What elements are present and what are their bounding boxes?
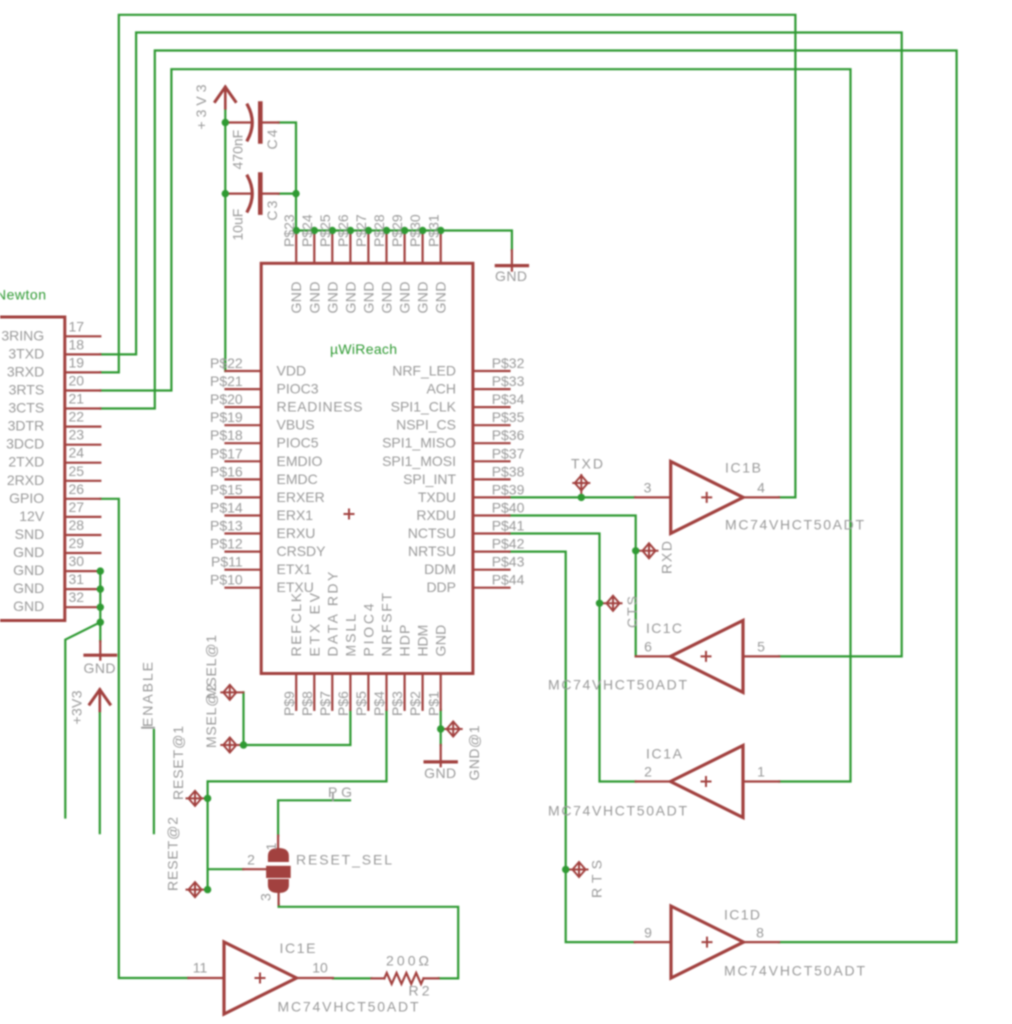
svg-text:P$4: P$4 [371, 691, 387, 716]
svg-text:3DCD: 3DCD [6, 436, 44, 452]
svg-text:29: 29 [69, 535, 85, 551]
svg-text:10uF: 10uF [229, 209, 245, 241]
svg-text:P$5: P$5 [353, 691, 369, 716]
svg-text:HDM: HDM [415, 625, 431, 657]
svg-text:P$12: P$12 [210, 536, 243, 552]
svg-text:P$31: P$31 [425, 214, 441, 247]
svg-text:VBUS: VBUS [277, 417, 315, 433]
svg-text:C4: C4 [264, 129, 280, 149]
svg-text:P$3: P$3 [389, 691, 405, 716]
svg-text:RTS: RTS [589, 860, 605, 898]
svg-text:P$18: P$18 [210, 427, 243, 443]
svg-text:GND: GND [433, 625, 449, 657]
svg-text:RESET@2: RESET@2 [165, 817, 181, 891]
svg-text:P$40: P$40 [492, 499, 525, 515]
svg-text:2: 2 [247, 852, 255, 868]
svg-text:2: 2 [644, 764, 652, 780]
svg-text:200Ω: 200Ω [386, 953, 429, 969]
svg-text:P$39: P$39 [492, 481, 525, 497]
svg-text:2TXD: 2TXD [8, 454, 44, 470]
svg-text:5: 5 [757, 639, 765, 655]
svg-text:P$13: P$13 [210, 518, 243, 534]
svg-text:IC1B: IC1B [725, 460, 761, 476]
svg-text:PIOC5: PIOC5 [277, 435, 319, 451]
svg-text:P$8: P$8 [299, 691, 315, 716]
svg-text:27: 27 [69, 499, 85, 515]
svg-text:P$24: P$24 [299, 214, 315, 247]
svg-text:GND: GND [288, 282, 304, 314]
svg-text:NRF_LED: NRF_LED [392, 363, 456, 379]
svg-text:DDM: DDM [424, 561, 456, 577]
svg-text:RESET_SEL: RESET_SEL [296, 852, 392, 868]
svg-text:6: 6 [644, 639, 652, 655]
svg-text:MSLL: MSLL [342, 614, 358, 657]
svg-text:P$2: P$2 [407, 691, 423, 716]
svg-text:GND: GND [13, 598, 44, 614]
svg-text:DDP: DDP [426, 579, 456, 595]
svg-text:P$41: P$41 [492, 518, 525, 534]
svg-text:32: 32 [69, 589, 85, 605]
svg-text:3RING: 3RING [1, 327, 44, 343]
svg-text:P$30: P$30 [407, 214, 423, 247]
svg-text:SPI1_MISO: SPI1_MISO [382, 435, 456, 451]
svg-text:GND: GND [495, 268, 527, 284]
svg-text:3DTR: 3DTR [8, 418, 45, 434]
svg-text:3RXD: 3RXD [7, 363, 44, 379]
svg-text:MC74VHCT50ADT: MC74VHCT50ADT [548, 677, 687, 693]
svg-text:IC1D: IC1D [724, 907, 760, 923]
svg-text:20: 20 [69, 372, 85, 388]
svg-text:CRSDY: CRSDY [277, 543, 327, 559]
svg-text:21: 21 [69, 391, 85, 407]
svg-text:ERX1: ERX1 [277, 507, 314, 523]
svg-text:RESET@1: RESET@1 [170, 726, 186, 800]
svg-text:PIOC3: PIOC3 [277, 381, 319, 397]
svg-text:GPIO: GPIO [9, 490, 44, 506]
svg-text:GND: GND [397, 282, 413, 314]
svg-text:GND: GND [324, 282, 340, 314]
svg-text:P$28: P$28 [371, 214, 387, 247]
svg-text:P$26: P$26 [335, 214, 351, 247]
svg-text:28: 28 [69, 517, 85, 533]
svg-text:NRFSFT: NRFSFT [379, 592, 395, 656]
svg-text:3RTS: 3RTS [9, 381, 45, 397]
svg-text:2RXD: 2RXD [7, 472, 44, 488]
svg-text:26: 26 [69, 481, 85, 497]
svg-text:HDP: HDP [397, 625, 413, 657]
svg-text:ACH: ACH [426, 381, 456, 397]
svg-text:P$38: P$38 [492, 463, 525, 479]
svg-text:22: 22 [69, 409, 85, 425]
svg-text:NCTSU: NCTSU [408, 525, 456, 541]
svg-text:9: 9 [644, 925, 652, 941]
svg-text:31: 31 [69, 571, 85, 587]
svg-text:GND: GND [360, 282, 376, 314]
svg-text:EMDIO: EMDIO [277, 453, 323, 469]
svg-text:P$36: P$36 [492, 427, 525, 443]
svg-text:MC74VHCT50ADT: MC74VHCT50ADT [278, 999, 419, 1015]
svg-text:PIOC4: PIOC4 [360, 603, 376, 656]
svg-text:SPI_INT: SPI_INT [403, 471, 456, 487]
svg-text:P$23: P$23 [281, 214, 297, 247]
svg-text:P$32: P$32 [492, 355, 525, 371]
svg-text:MC74VHCT50ADT: MC74VHCT50ADT [724, 963, 865, 979]
svg-text:470nF: 470nF [229, 130, 245, 170]
svg-text:SPI1_MOSI: SPI1_MOSI [382, 453, 456, 469]
svg-text:SPI1_CLK: SPI1_CLK [391, 399, 457, 415]
svg-text:GND: GND [379, 282, 395, 314]
svg-text:READINESS: READINESS [277, 399, 363, 415]
svg-text:SND: SND [15, 526, 45, 542]
svg-text:REFCLK: REFCLK [288, 592, 304, 656]
svg-text:GND: GND [415, 282, 431, 314]
svg-text:P$14: P$14 [210, 499, 243, 515]
svg-text:P G: P G [328, 784, 352, 800]
svg-text:NRTSU: NRTSU [408, 543, 456, 559]
svg-text:1: 1 [757, 764, 765, 780]
svg-text:17: 17 [69, 318, 85, 334]
svg-text:P$9: P$9 [281, 691, 297, 716]
svg-text:P$6: P$6 [335, 691, 351, 716]
svg-text:3: 3 [258, 893, 274, 901]
svg-text:MC74VHCT50ADT: MC74VHCT50ADT [548, 803, 687, 819]
svg-text:P$10: P$10 [210, 572, 243, 588]
svg-text:GND: GND [342, 282, 358, 314]
svg-text:23: 23 [69, 427, 85, 443]
svg-text:C3: C3 [264, 200, 280, 220]
svg-text:P$7: P$7 [317, 691, 333, 716]
svg-text:IC1A: IC1A [646, 746, 683, 762]
svg-text:VDD: VDD [277, 363, 307, 379]
svg-text:P$33: P$33 [492, 373, 525, 389]
svg-text:MC74VHCT50ADT: MC74VHCT50ADT [725, 517, 864, 533]
svg-text:EMDC: EMDC [277, 471, 318, 487]
svg-text:P$37: P$37 [492, 445, 525, 461]
svg-text:µWiReach: µWiReach [330, 341, 397, 357]
svg-text:19: 19 [69, 354, 85, 370]
svg-text:GND: GND [13, 580, 44, 596]
svg-text:P$16: P$16 [210, 463, 243, 479]
svg-text:GND: GND [84, 660, 116, 676]
svg-text:P$17: P$17 [210, 445, 243, 461]
svg-text:MSEL@2: MSEL@2 [203, 684, 219, 748]
svg-text:P$29: P$29 [389, 214, 405, 247]
svg-text:+3V3: +3V3 [69, 690, 85, 724]
svg-text:10: 10 [312, 960, 328, 976]
svg-text:P$11: P$11 [211, 554, 243, 570]
svg-text:8: 8 [756, 925, 764, 941]
svg-text:NSPI_CS: NSPI_CS [396, 417, 456, 433]
svg-text:3: 3 [644, 480, 652, 496]
svg-text:12V: 12V [19, 508, 45, 524]
svg-text:3TXD: 3TXD [8, 345, 44, 361]
svg-text:P$34: P$34 [492, 391, 525, 407]
svg-text:P$20: P$20 [210, 391, 243, 407]
svg-text:P$43: P$43 [492, 554, 525, 570]
svg-text:Newton: Newton [0, 287, 46, 303]
svg-text:P$19: P$19 [210, 409, 243, 425]
svg-text:P$44: P$44 [492, 572, 525, 588]
svg-text:TXDU: TXDU [418, 489, 456, 505]
svg-text:RXDU: RXDU [416, 507, 456, 523]
svg-text:RXD: RXD [658, 541, 674, 574]
svg-text:GND: GND [433, 282, 449, 314]
svg-text:25: 25 [69, 463, 85, 479]
svg-text:P$27: P$27 [353, 214, 369, 247]
svg-text:IC1C: IC1C [646, 620, 682, 636]
svg-text:P$25: P$25 [317, 214, 333, 247]
svg-text:ETX1: ETX1 [277, 561, 312, 577]
svg-text:ERXU: ERXU [277, 525, 316, 541]
svg-text:18: 18 [69, 336, 85, 352]
svg-text:P$21: P$21 [210, 373, 243, 389]
svg-text:ERXER: ERXER [277, 489, 325, 505]
svg-text:GND: GND [306, 282, 322, 314]
svg-text:ETXU: ETXU [277, 579, 314, 595]
svg-text:P$1: P$1 [425, 691, 441, 716]
svg-text:P$42: P$42 [492, 536, 525, 552]
svg-text:3CTS: 3CTS [8, 400, 44, 416]
svg-text:GND@1: GND@1 [466, 725, 482, 780]
svg-text:P$15: P$15 [210, 481, 243, 497]
svg-text:1: 1 [263, 843, 279, 851]
svg-text:30: 30 [69, 553, 85, 569]
svg-text:TXD: TXD [571, 456, 603, 472]
svg-text:P$22: P$22 [210, 355, 243, 371]
svg-text:GND: GND [13, 562, 44, 578]
svg-text:GND: GND [13, 544, 44, 560]
svg-text:GND: GND [424, 765, 456, 781]
svg-text:24: 24 [69, 445, 85, 461]
svg-text:CTS: CTS [624, 596, 640, 628]
svg-text:11: 11 [193, 960, 208, 976]
svg-text:P$35: P$35 [492, 409, 525, 425]
svg-text:4: 4 [757, 480, 765, 496]
svg-text:IC1E: IC1E [280, 940, 316, 956]
